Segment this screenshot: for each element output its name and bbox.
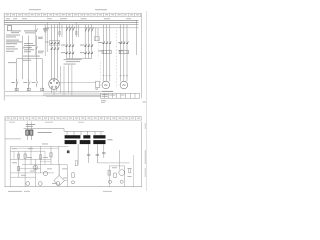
label bl 1 (12, 144, 49, 150)
wire v x25.1 (24, 151, 26, 187)
wire riser 4 (71, 65, 73, 95)
overload relay F4 (119, 50, 128, 53)
wire stub pair d (96, 28, 98, 41)
fuse stub pair b (60, 22, 62, 37)
wire control vertical 5 (41, 59, 43, 91)
capacitor C2 (96, 154, 99, 155)
fuse stub pair c (76, 22, 78, 37)
wire 3-phase drop to K1 (66, 25, 72, 59)
wire h 146.3 (10, 145, 68, 147)
resistor R3 (40, 155, 42, 159)
label terminal rows mid (6, 35, 20, 38)
transistor Q2 (43, 171, 47, 175)
wire L1 bus (5, 19, 139, 21)
resistor R7 (114, 173, 116, 178)
resistor R4 (50, 153, 52, 157)
label left rows extra (6, 46, 18, 51)
bottom sheet frame (5, 117, 142, 188)
contactor box Q1 (49, 41, 59, 46)
wire plug bottom stubs (52, 89, 57, 95)
wire h 164.6 (22, 164, 67, 166)
wire drop a (77, 144, 79, 164)
wire lower horizontal run 1 (43, 92, 101, 94)
LED D1 (72, 181, 75, 184)
label left of Q1 (45, 41, 49, 44)
dashed separator line 3 (100, 62, 102, 88)
fuse stub pair a (45, 22, 47, 56)
contactor K3 (102, 41, 111, 44)
wire 3-phase drop to K2 (85, 25, 91, 59)
label right column (112, 167, 132, 177)
caption under bottom schematic (8, 190, 112, 193)
wire control vertical 3 (28, 36, 30, 91)
label bl 2 (12, 157, 48, 163)
wire v x14 (13, 151, 15, 159)
contactor Q1 (50, 42, 59, 45)
motor M1 (102, 81, 110, 89)
wire 3-phase drop to M1 (103, 25, 109, 82)
bus end tick labels (6, 17, 27, 20)
label at G2 (80, 45, 85, 54)
wire plug leads (51, 71, 57, 80)
contactor K2 (84, 44, 93, 47)
contactor K1 (65, 44, 74, 47)
column index strip bottom (5, 117, 142, 121)
resistor R5 (72, 173, 74, 178)
overload relay F3 (102, 50, 111, 53)
contactor K2b (84, 52, 93, 55)
brake box Y1 (96, 81, 100, 90)
wire h 159.5 (10, 159, 51, 161)
column numbers bottom (7, 118, 141, 119)
bridge rectifier V1 (54, 165, 65, 186)
wire from contacts down (27, 135, 31, 140)
title block (101, 93, 140, 98)
wire L3 bus (5, 24, 139, 26)
wire drop d (103, 144, 105, 158)
bottom rail 0V (5, 186, 142, 188)
wire h 177.2 (10, 176, 35, 178)
column numbers (6, 14, 139, 15)
coil K1 (15, 88, 18, 91)
wire riser 2 (63, 66, 65, 95)
wire h 161.8 (40, 161, 51, 163)
motor M2 (120, 81, 128, 89)
wire v x119.7 (119, 150, 121, 170)
motor M2 cable marks (120, 75, 128, 77)
coil K3 (41, 88, 44, 91)
label right of contacts (38, 132, 52, 133)
label rows x38 (38, 37, 43, 39)
coil K2 (27, 88, 30, 91)
disconnect switch Q3 (85, 27, 93, 31)
meter P1 (119, 170, 125, 176)
terminal strip X1 row 2 (65, 140, 106, 144)
label K-coil text column (24, 43, 35, 52)
wire control vertical 1 (16, 59, 18, 91)
wire bridge right (64, 165, 67, 187)
page number right (143, 101, 147, 104)
bus labels (47, 17, 131, 20)
terminal strip X1 row 1 (65, 135, 106, 138)
fuse F7 (75, 32, 77, 35)
label mid text rows (64, 59, 82, 64)
label under badge corner (43, 28, 49, 30)
wire L2 bus (5, 21, 139, 23)
wire lower horizontal run 2 (43, 94, 101, 96)
wire left stub (5, 138, 21, 140)
wire h 172.9 (10, 172, 54, 174)
wire v x51 (50, 146, 52, 164)
resistor R10 (129, 169, 131, 173)
wire drop b (88, 144, 90, 163)
switch mark on corner drop (36, 28, 38, 32)
label bl 3 (21, 168, 52, 175)
capacitor C3 (102, 152, 105, 153)
wire v x58.8 (58, 146, 60, 164)
resistor R6 (108, 171, 110, 176)
label terminal list text block (6, 40, 22, 45)
label at G1 (61, 45, 66, 54)
wire v x109.2 (108, 166, 110, 187)
page background (0, 0, 149, 198)
contact marks on control feeds (23, 46, 38, 49)
dashed separator line (115, 30, 117, 88)
fuse block left bus end (8, 26, 12, 31)
dashed separator line 2 (97, 32, 99, 58)
control circuit top rail (17, 58, 43, 60)
wire v x124.7 (124, 166, 126, 187)
wire h 148.2 (18, 147, 58, 149)
wire h 165.9 (109, 165, 125, 167)
terminal strip feed drops (67, 131, 101, 135)
motor M1 cable marks (102, 75, 110, 77)
label X1 (108, 139, 113, 140)
wire right h 162.9 (97, 162, 129, 164)
contactor Q1b (50, 47, 59, 50)
title block label above (101, 91, 113, 92)
wire h 168.8 (19, 168, 41, 170)
label near S2 (23, 81, 27, 84)
wire v x40.6 (40, 146, 42, 173)
top sheet frame left (3, 13, 5, 101)
wire 3-phase drop to X0 (51, 25, 57, 72)
fuse F6 (59, 32, 61, 35)
metering box (95, 37, 100, 41)
wire corner drop with switch (35, 25, 37, 55)
electrolytic capacitor C5 (38, 182, 42, 186)
label at G4 (118, 42, 123, 51)
rotated margin text (144, 123, 147, 177)
wire plug to brake box (59, 82, 95, 84)
wire v x31 (30, 146, 32, 164)
disconnect switch Q2 (66, 27, 74, 31)
electrolytic capacitor C6 (56, 182, 60, 186)
label rows left of control (8, 60, 31, 63)
wire v x45 (44, 151, 46, 164)
label rows x38 lower (38, 51, 44, 54)
label above control circuit (23, 56, 40, 57)
auxiliary contact S3 (36, 79, 38, 86)
caption below title block (101, 100, 106, 103)
resistor R2 (24, 154, 26, 158)
diode D3 (120, 180, 123, 183)
wire h 151.2 (10, 150, 45, 152)
title block cell text (102, 94, 125, 96)
label relay text block (26, 124, 35, 127)
capacitor C1 (87, 154, 90, 155)
fuse F10 (67, 150, 70, 153)
wire single right drop (136, 20, 138, 55)
top sheet frame right (140, 13, 142, 98)
wire N bus (45, 27, 139, 29)
label NOT-AUS text block (11, 30, 37, 33)
wire v x133.6 (133, 155, 135, 187)
wire strip stubs (27, 122, 31, 131)
label bl 4 (52, 168, 67, 184)
transistor Q1 (33, 165, 38, 170)
wire riser 1 (59, 66, 61, 93)
contactor K4 (120, 41, 129, 44)
label at G3 (98, 42, 103, 51)
contactor K1b (65, 52, 74, 55)
control bottom rail 1 (5, 90, 101, 92)
relay contact block K11 (26, 130, 33, 135)
resistor R9 (75, 161, 77, 166)
page header text left (29, 9, 107, 10)
sheet right border (146, 11, 148, 191)
diode D2 (109, 180, 112, 183)
wire control vertical 4 (35, 36, 37, 80)
wire drop c (96, 144, 98, 163)
wire 3-phase drop to M2 (121, 25, 127, 82)
plug connector X0 (49, 79, 60, 90)
electrolytic capacitor C4 (26, 182, 30, 186)
control bottom rail 2 (5, 95, 101, 97)
wire v x18.6 (18, 151, 20, 177)
wire lower horizontal run 3 (46, 96, 101, 98)
auxiliary contact S1 (17, 79, 19, 86)
wire v x35.5 (35, 160, 37, 187)
resistor R8 (18, 167, 20, 171)
wire joining K1 K2 outputs (66, 58, 91, 60)
wire v x10.2 (9, 146, 11, 186)
labels under strip (9, 121, 84, 124)
wire feed to terminal strip (24, 129, 105, 132)
column index strip top (4, 13, 141, 16)
resistor R1 (18, 154, 20, 158)
fuse F5 (44, 29, 46, 32)
wire control vertical 2 (22, 36, 24, 80)
wire riser 3 (68, 65, 70, 93)
label near S3 (32, 81, 36, 84)
label near S1 (11, 81, 15, 84)
auxiliary contact S2 (29, 79, 31, 86)
